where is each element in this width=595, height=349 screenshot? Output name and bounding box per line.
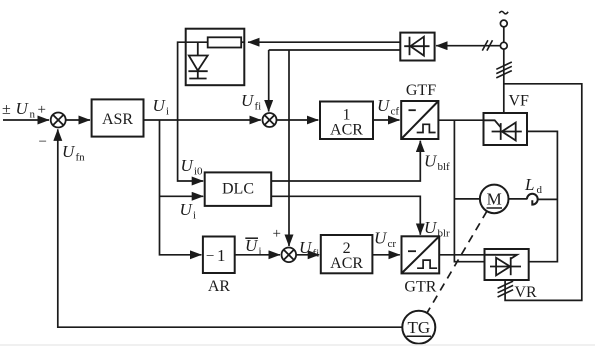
AC source terminals xyxy=(500,20,507,27)
svg-text:cr: cr xyxy=(388,238,397,250)
svg-text:AR: AR xyxy=(208,278,231,295)
svg-text:GTF: GTF xyxy=(406,82,436,99)
block 1ACR (forward current regulator) xyxy=(320,102,373,140)
block AR (inverter -1) xyxy=(203,237,235,274)
fuse slashes on VR feed xyxy=(498,281,513,297)
minus sign inside GTF xyxy=(409,109,416,111)
block DLC (logic controller) xyxy=(205,172,272,206)
svg-text:U: U xyxy=(181,156,195,175)
wire: Ufi drop to junction2 xyxy=(268,50,270,112)
svg-text:U: U xyxy=(16,99,30,118)
wire: junction1 to ASR xyxy=(66,119,90,121)
svg-text:M: M xyxy=(487,190,502,209)
svg-text:−: − xyxy=(206,249,214,265)
svg-text:±: ± xyxy=(2,101,11,118)
tachogenerator TG circle xyxy=(402,311,435,344)
inductor Ld loop xyxy=(527,194,538,205)
svg-text:d: d xyxy=(537,184,543,196)
wire: AC branch to right bus down to VR xyxy=(504,84,582,301)
svg-text:U: U xyxy=(62,142,76,161)
decorative bottom page line xyxy=(0,344,595,346)
svg-text:cf: cf xyxy=(391,106,400,118)
block 2ACR (reverse current regulator) xyxy=(321,235,373,273)
wire: speed feedback Ufn from TG xyxy=(58,129,403,327)
wire: junction2 to 1ACR xyxy=(277,119,319,121)
wire: detector box output down to DLC input Ui0 xyxy=(178,42,204,181)
wire: rectifier to detector box (arrow) xyxy=(248,41,400,43)
wire: Ui bus drop at x159.5 down to AR xyxy=(160,120,202,255)
wire: ASR output Ui bus to summing junction 2 xyxy=(144,119,261,121)
thyristor symbol inside VF xyxy=(484,120,522,140)
svg-text:GTR: GTR xyxy=(404,278,436,295)
diode inside detector box xyxy=(188,42,207,78)
fuse slashes on VF feed xyxy=(496,62,512,78)
wire: lower feedback line from rectifier xyxy=(269,49,401,51)
svg-text:U: U xyxy=(377,96,391,115)
wire: DLC output 2 down to GTR (Ublr) xyxy=(271,196,420,235)
svg-text:VR: VR xyxy=(515,284,538,301)
wire: armature node drop from GTF-VF line xyxy=(454,120,484,262)
node: summing junction 2 (current loop F) xyxy=(263,113,277,127)
diode symbol inside rectifier xyxy=(404,37,429,56)
svg-text:fn: fn xyxy=(76,152,86,164)
pulse symbol inside GTR xyxy=(417,260,437,268)
svg-text:U: U xyxy=(153,96,167,115)
block GTR (reverse gate trigger) xyxy=(402,236,440,273)
wire: Ucr from 2ACR to GTR xyxy=(372,254,399,256)
wire: AR to summing junction 3 xyxy=(235,254,280,256)
wire: AC down to VF with fuse xyxy=(503,49,505,113)
block VF (forward thyristor bridge) xyxy=(484,113,528,145)
block VR (reverse thyristor bridge) xyxy=(485,249,529,280)
resistor inside detector box xyxy=(208,37,242,47)
svg-text:fi: fi xyxy=(313,247,320,259)
wire inside detector box xyxy=(186,41,208,43)
svg-text:U: U xyxy=(374,228,388,247)
svg-text:ACR: ACR xyxy=(330,121,363,138)
wire: Ucf from 1ACR to GTF xyxy=(373,119,400,121)
wire: GTF to VF xyxy=(438,119,483,121)
svg-text:U: U xyxy=(241,91,255,110)
wire: AC supply to rectifier with switch xyxy=(436,45,500,47)
thyristor symbol inside VR xyxy=(485,255,522,276)
svg-text:+: + xyxy=(38,102,46,118)
wire: Ufi drop to junction3 xyxy=(288,50,290,246)
svg-text:VF: VF xyxy=(509,93,530,110)
dashed mechanical coupling M to TG xyxy=(427,211,487,312)
svg-text:i: i xyxy=(259,246,262,258)
svg-text:U: U xyxy=(180,200,194,219)
block: current-zero detector box (top) xyxy=(186,29,245,85)
svg-text:DLC: DLC xyxy=(222,180,254,197)
svg-text:i0: i0 xyxy=(194,165,203,177)
svg-text:i: i xyxy=(193,209,196,221)
minus sign inside GTR xyxy=(408,250,416,252)
svg-text:n: n xyxy=(30,109,36,121)
svg-text:TG: TG xyxy=(407,318,430,337)
wire: branch to DLC lower input Ui xyxy=(160,195,204,197)
block ASR (speed regulator) xyxy=(92,99,144,136)
svg-text:L: L xyxy=(524,175,534,194)
block GTF (forward gate trigger) xyxy=(401,101,438,139)
svg-text:blf: blf xyxy=(438,161,451,173)
wire: junction3 to 2ACR xyxy=(296,254,319,256)
svg-text:blr: blr xyxy=(438,228,451,240)
svg-text:1: 1 xyxy=(217,246,226,265)
svg-text:fi: fi xyxy=(255,100,262,112)
svg-text:U: U xyxy=(299,238,313,257)
svg-text:ASR: ASR xyxy=(102,111,133,128)
svg-text:i: i xyxy=(166,106,169,118)
svg-text:U: U xyxy=(424,218,438,237)
svg-text:−: − xyxy=(39,134,47,150)
wire: motor to Ld xyxy=(509,198,528,200)
pulse symbol inside GTF xyxy=(417,124,436,132)
svg-text:ACR: ACR xyxy=(330,255,363,272)
switch slashes on AC line xyxy=(482,40,492,50)
tilde AC mark xyxy=(499,11,508,13)
wire: to motor left terminal xyxy=(454,198,480,200)
wire: Ld to right xyxy=(538,198,557,200)
node: summing junction 1 (speed error) xyxy=(51,113,66,128)
svg-text:+: + xyxy=(273,226,281,242)
wire: speed reference input xyxy=(3,119,49,121)
block: rectifier box (current transformer rectifier) xyxy=(400,33,434,61)
wire: VF right down to VR right xyxy=(527,131,557,261)
node: summing junction 3 (current loop R) xyxy=(282,248,297,263)
svg-text:U: U xyxy=(424,151,438,170)
wire: GTR to VR gate xyxy=(439,254,484,256)
motor M circle xyxy=(480,185,509,214)
wire: DLC output 1 up to GTF (Ublf) xyxy=(271,141,420,181)
